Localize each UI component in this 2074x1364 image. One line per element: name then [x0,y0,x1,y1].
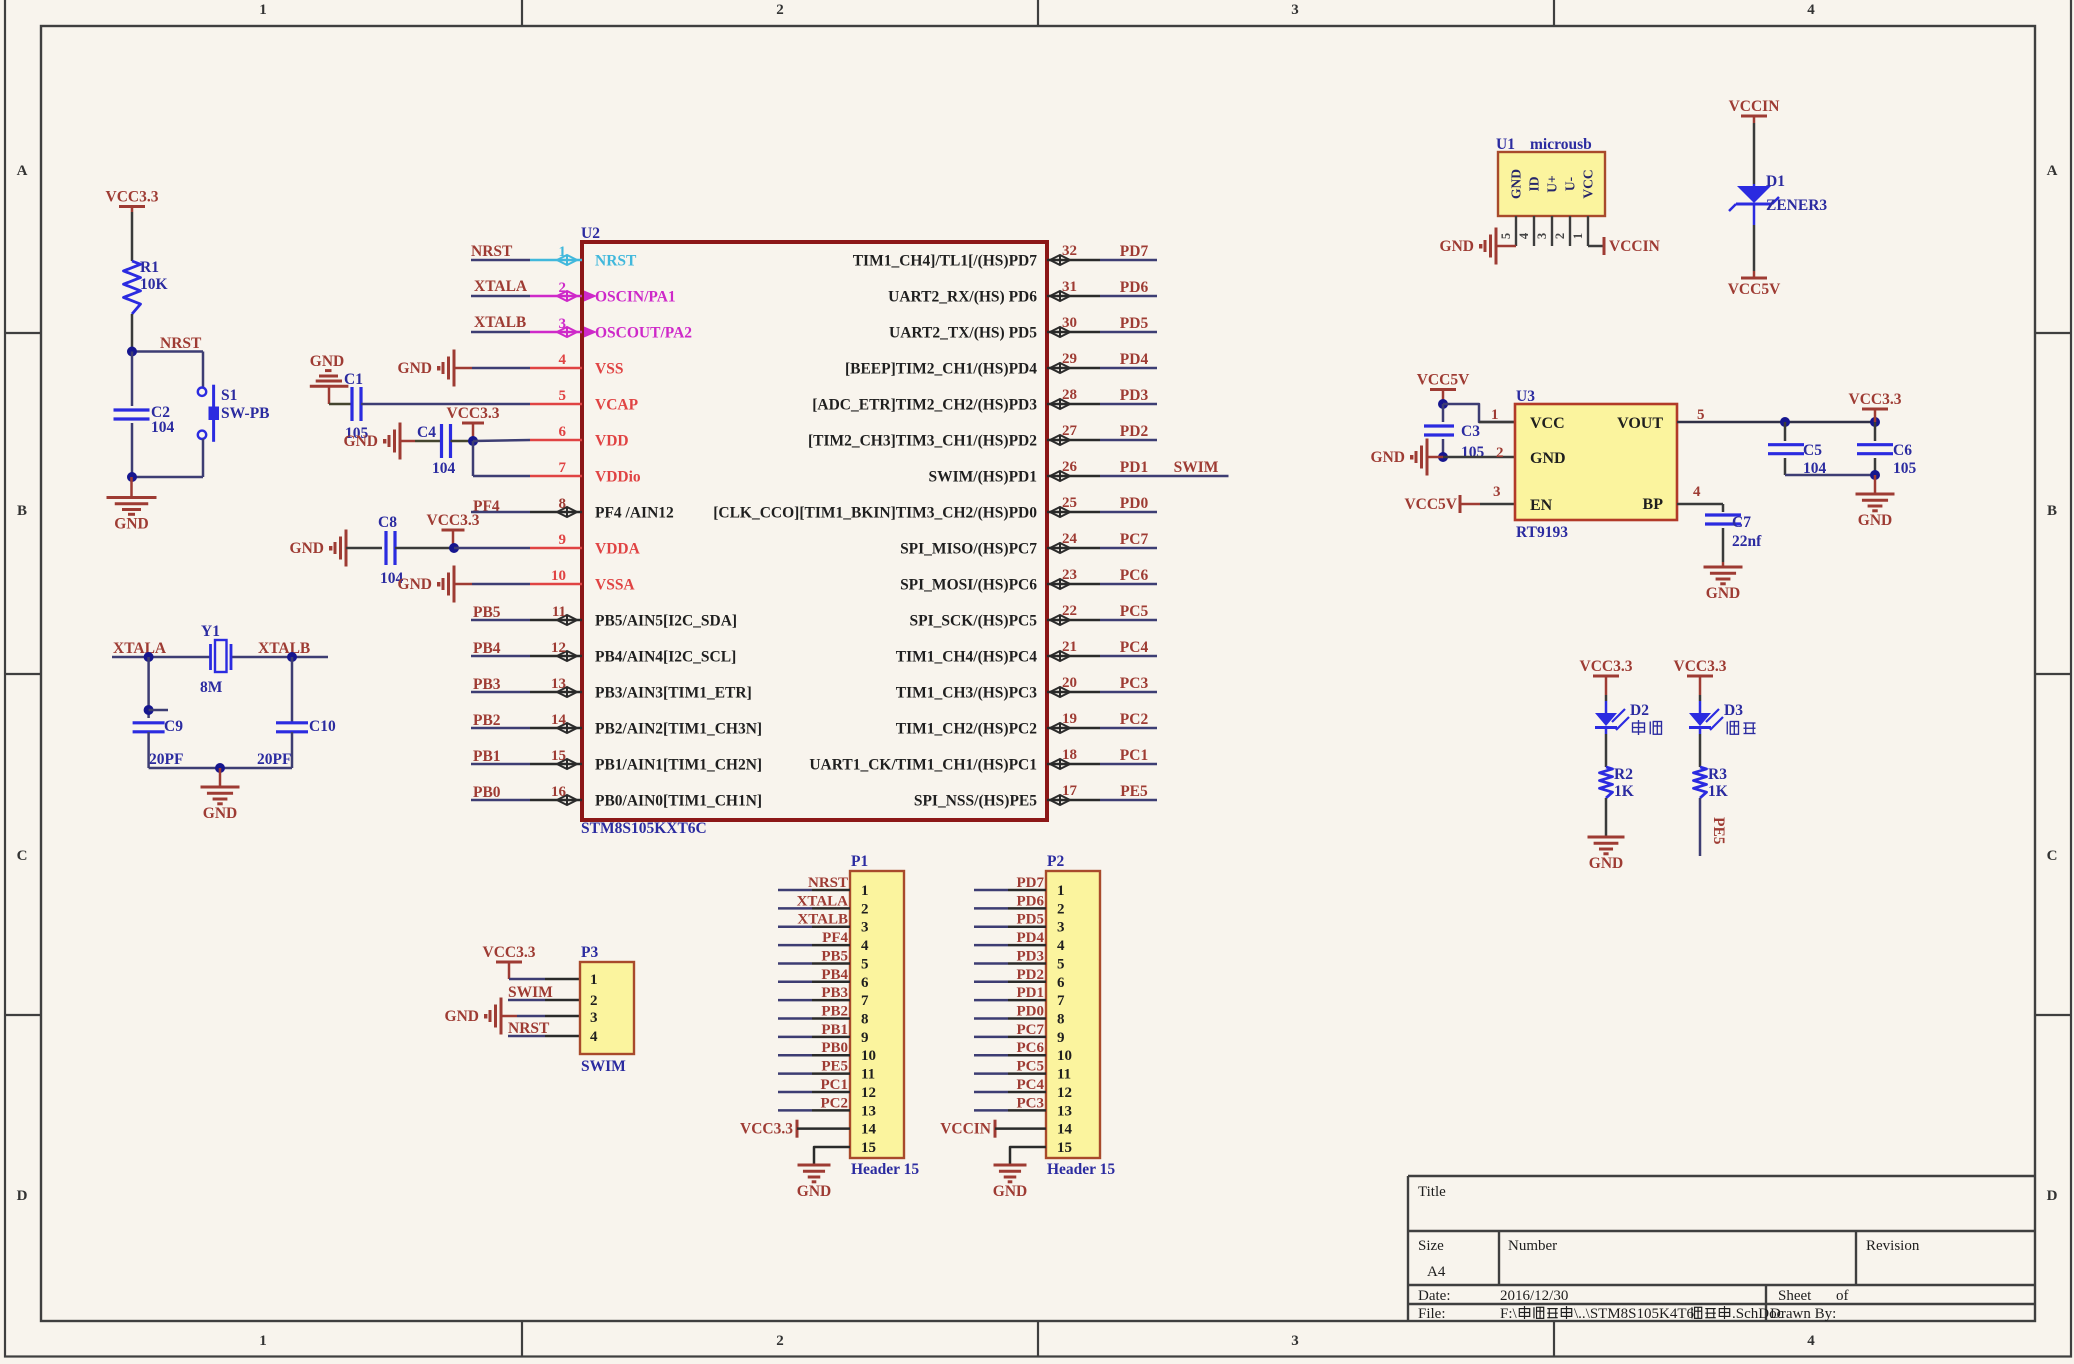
wire C1 left lead [329,403,352,406]
wire net PD5 to P2 pin3 [974,925,1008,928]
svg-text:PC4: PC4 [1120,639,1149,656]
wire VCC3.3 to D3 [1699,695,1702,701]
svg-text:GND: GND [1858,512,1892,529]
wire net PB1 to P1 pin9 [778,1036,812,1039]
svg-text:PB2: PB2 [473,712,501,729]
svg-text:PC7: PC7 [1017,1022,1045,1038]
svg-text:GND: GND [344,433,378,450]
pin 31 UART2_RX/(HS) PD6 [1047,295,1100,298]
svg-text:PE5: PE5 [821,1059,848,1075]
svg-text:XTALA: XTALA [474,278,528,295]
svg-text:2: 2 [1553,233,1567,239]
wire net PC4 [1100,655,1157,658]
svg-text:7: 7 [559,460,567,476]
svg-text:14: 14 [1057,1122,1073,1138]
wire XTALA down to C9 [147,657,150,718]
svg-text:VCC3.3: VCC3.3 [447,405,500,422]
wire net NRST to P1 pin1 [778,889,812,892]
wire net PB0 to P1 pin10 [778,1054,812,1057]
svg-text:11: 11 [552,604,566,620]
svg-text:F:\: F:\ [1500,1306,1518,1322]
pin 5 VCAP [530,403,582,406]
wire Y1 to XTALB [231,656,328,659]
wire D1 to VCC5V [1753,225,1756,271]
svg-text:1K: 1K [1708,783,1728,800]
pin 8 PF4 /AIN12 [530,511,582,514]
svg-text:SPI_MISO/(HS)PC7: SPI_MISO/(HS)PC7 [900,541,1037,558]
wire net PD5 [1100,331,1157,334]
svg-text:VCC3.3: VCC3.3 [483,944,536,961]
wire net PD7 [1100,259,1157,262]
wire PB0 to pin16 [471,799,530,802]
svg-text:GND: GND [1530,450,1566,467]
svg-text:OSCOUT/PA2: OSCOUT/PA2 [595,325,692,342]
svg-text:PB2/AIN2[TIM1_CH3N]: PB2/AIN2[TIM1_CH3N] [595,721,762,738]
wire net PD0 [1100,511,1157,514]
svg-text:ZENER3: ZENER3 [1766,197,1827,214]
svg-text:Revision: Revision [1866,1238,1920,1254]
svg-text:1: 1 [590,972,598,988]
svg-text:PC7: PC7 [1120,531,1149,548]
svg-text:11: 11 [861,1067,875,1083]
svg-text:C7: C7 [1732,514,1751,531]
wire U1 pin1 to VCCIN [1588,245,1604,248]
wire net PC3 to P2 pin13 [974,1109,1008,1112]
svg-text:NRST: NRST [471,243,513,260]
svg-text:TIM1_CH3/(HS)PC3: TIM1_CH3/(HS)PC3 [896,685,1037,702]
wire GND to C8 [346,547,382,550]
svg-text:D2: D2 [1630,702,1649,719]
svg-text:RT9193: RT9193 [1516,524,1568,541]
resistor R3 1K [1694,767,1707,798]
pin 19 TIM1_CH2/(HS)PC2 [1047,727,1100,730]
svg-text:C9: C9 [164,718,183,735]
pin 7 VDDio [530,475,582,478]
svg-text:SWIM/(HS)PD1: SWIM/(HS)PD1 [929,469,1038,486]
wire VCC3.3 to P3 pin1 [509,978,545,981]
svg-text:105: 105 [1461,444,1485,461]
svg-text:P3: P3 [581,944,598,961]
svg-text:4: 4 [1517,232,1531,239]
svg-text:9: 9 [559,532,567,548]
ground GND at P1 [813,1164,816,1167]
svg-text:SWIM: SWIM [508,984,553,1001]
svg-text:3: 3 [1291,2,1299,18]
wire U3 BP to C7 [1677,503,1723,506]
svg-text:26: 26 [1062,459,1078,475]
svg-text:microusb: microusb [1530,136,1592,153]
svg-text:Title: Title [1418,1184,1446,1200]
svg-text:104: 104 [432,460,456,477]
svg-text:VCCIN: VCCIN [1609,238,1660,255]
svg-text:GND: GND [445,1008,479,1025]
svg-text:3: 3 [861,920,869,936]
svg-text:30: 30 [1062,315,1077,331]
svg-text:8: 8 [1057,1012,1065,1028]
svg-text:SWIM: SWIM [1174,459,1219,476]
svg-text:105: 105 [1893,460,1917,477]
svg-text:7: 7 [861,993,869,1009]
pin 15 PB1/AIN1[TIM1_CH2N] [530,763,582,766]
svg-text:PB4: PB4 [821,967,848,983]
svg-text:6: 6 [1057,975,1065,991]
switch S1 SW-PB [198,388,206,396]
svg-text:3: 3 [1535,233,1549,239]
ground GND (reset circuit) [130,477,133,498]
svg-text:PC6: PC6 [1017,1040,1045,1056]
pin 13 PB3/AIN3[TIM1_ETR] [530,691,582,694]
svg-text:20PF: 20PF [149,751,183,768]
wire net PD4 [1100,367,1157,370]
svg-text:2: 2 [1496,445,1504,461]
svg-text:4: 4 [1807,2,1815,18]
capacitor C9 20PF [133,721,165,724]
wire net PC7 [1100,547,1157,550]
svg-text:2: 2 [559,280,567,296]
ground GND at R2 [1605,836,1608,837]
svg-text:PC2: PC2 [1120,711,1149,728]
svg-text:PC5: PC5 [1120,603,1149,620]
svg-text:1: 1 [1491,407,1499,423]
svg-text:PB0: PB0 [473,784,501,801]
wire PB3 to pin13 [471,691,530,694]
svg-text:PD1: PD1 [1017,985,1045,1001]
svg-text:D: D [17,1188,28,1204]
svg-text:4: 4 [1057,938,1065,954]
svg-text:C: C [2047,848,2058,864]
svg-text:NRST: NRST [808,875,848,891]
wire VCC5V to U3 pin1 [1443,404,1515,422]
svg-text:1: 1 [259,2,267,18]
svg-text:GND: GND [310,353,344,370]
svg-text:Sheet: Sheet [1778,1288,1812,1304]
wire net PB5 to P1 pin5 [778,962,812,965]
wire VDD node down to pin7 VDDio [472,441,475,476]
svg-text:PB5: PB5 [821,948,848,964]
wire VCCIN to D1 [1753,123,1756,184]
pin 25 [CLK_CCO][TIM1_BKIN]TIM3_CH2/(HS)PD0 [1047,511,1100,514]
svg-text:PD4: PD4 [1017,930,1045,946]
wire net PD6 [1100,295,1157,298]
wire GND to C4 [415,440,442,443]
wire net PE5 to P1 pin11 [778,1072,812,1075]
svg-text:5: 5 [1057,956,1065,972]
wire net PC1 to P1 pin12 [778,1091,812,1094]
LED D2 chinese label [1633,723,1645,732]
pin 4 VSS [530,367,582,370]
svg-text:2: 2 [590,993,598,1009]
svg-text:GND: GND [1509,169,1524,199]
svg-text:PD1: PD1 [1120,459,1148,476]
svg-text:U1: U1 [1496,136,1515,153]
pin 6 VDD [530,439,582,442]
svg-text:15: 15 [861,1140,876,1156]
svg-text:C4: C4 [417,424,436,441]
ground GND at C7 [1722,562,1725,567]
wire net XTALB to P1 pin3 [778,925,812,928]
svg-text:C3: C3 [1461,423,1480,440]
svg-text:NRST: NRST [508,1020,550,1037]
svg-text:GND: GND [203,805,237,822]
capacitor C7 22nf [1705,513,1741,516]
svg-text:17: 17 [1062,783,1078,799]
pin 11 PB5/AIN5[I2C_SDA] [530,619,582,622]
title block [1408,1175,2035,1177]
svg-text:PD5: PD5 [1017,912,1045,928]
svg-text:Header 15: Header 15 [1047,1161,1115,1178]
wire net PD0 to P2 pin8 [974,1017,1008,1020]
svg-text:10: 10 [551,568,566,584]
svg-text:\..\STM8S105K4T6: \..\STM8S105K4T6 [1574,1306,1695,1322]
capacitor C6 105 [1874,422,1877,441]
svg-text:5: 5 [1697,407,1705,423]
svg-text:3: 3 [1291,1333,1299,1349]
svg-text:PC5: PC5 [1017,1059,1045,1075]
svg-text:GND: GND [797,1183,831,1200]
svg-text:XTALB: XTALB [258,640,310,657]
svg-text:PE5: PE5 [1120,783,1148,800]
svg-text:EN: EN [1530,497,1553,514]
svg-text:R2: R2 [1614,766,1633,783]
wire net PD1 to P2 pin7 [974,999,1008,1002]
svg-text:GND: GND [1589,855,1623,872]
svg-text:File:: File: [1418,1306,1446,1322]
wire S1 to GND rail [202,439,205,477]
svg-text:D: D [2047,1188,2058,1204]
svg-text:2: 2 [861,901,869,917]
wire GND to P3 pin3 [517,1015,545,1018]
svg-text:R3: R3 [1708,766,1727,783]
svg-text:OSCIN/PA1: OSCIN/PA1 [595,289,676,306]
node junction at C5 [1780,417,1790,427]
wire net PC6 to P2 pin10 [974,1054,1008,1057]
svg-text:GND: GND [1440,238,1474,255]
svg-text:PC2: PC2 [821,1095,849,1111]
svg-text:PB0: PB0 [821,1040,848,1056]
wire XTALA to Y1 [112,656,210,659]
svg-text:3: 3 [590,1010,598,1026]
svg-text:C5: C5 [1803,442,1822,459]
svg-text:14: 14 [551,712,567,728]
svg-text:BP: BP [1643,496,1664,513]
svg-text:TIM1_CH4/(HS)PC4: TIM1_CH4/(HS)PC4 [896,649,1037,666]
wire net PF4 to P1 pin4 [778,944,812,947]
svg-text:1: 1 [1571,233,1585,239]
wire XTALB to pin3 [471,331,530,334]
svg-text:PD7: PD7 [1120,243,1149,260]
svg-text:SPI_MOSI/(HS)PC6: SPI_MOSI/(HS)PC6 [900,577,1037,594]
svg-text:19: 19 [1062,711,1077,727]
wire net PD6 to P2 pin2 [974,907,1008,910]
capacitor C10 20PF [276,721,308,724]
svg-text:of: of [1836,1288,1849,1304]
svg-text:PB4: PB4 [473,640,501,657]
svg-text:PD6: PD6 [1120,279,1149,296]
svg-text:3: 3 [1493,484,1501,500]
svg-text:15: 15 [1057,1140,1072,1156]
svg-text:A: A [17,163,28,179]
svg-text:VCC3.3: VCC3.3 [106,189,159,206]
svg-text:VCC5V: VCC5V [1728,281,1781,298]
svg-text:U3: U3 [1516,388,1535,405]
svg-text:2: 2 [776,1333,784,1349]
crystal Y1 8M [209,644,212,670]
svg-text:2016/12/30: 2016/12/30 [1500,1288,1568,1304]
diode D1 ZENER3 [1753,184,1756,186]
svg-text:VCCIN: VCCIN [940,1121,991,1138]
wire GND junction to U3 pin2 [1427,456,1443,459]
pin 30 UART2_TX/(HS) PD5 [1047,331,1100,334]
node junction at R1/C2/NRST [127,347,137,357]
svg-text:PC1: PC1 [1120,747,1148,764]
svg-text:1: 1 [861,883,869,899]
svg-text:PD5: PD5 [1120,315,1149,332]
svg-text:VCC: VCC [1581,169,1596,198]
resistor R2 1K [1600,767,1613,798]
svg-text:VCC5V: VCC5V [1404,496,1457,513]
svg-text:10: 10 [1057,1048,1072,1064]
svg-text:PB3: PB3 [473,676,501,693]
svg-text:13: 13 [861,1103,876,1119]
svg-text:NRST: NRST [160,335,202,352]
svg-text:6: 6 [559,424,567,440]
svg-text:D1: D1 [1766,173,1785,190]
svg-text:10K: 10K [140,276,168,293]
wire net PC2 to P1 pin13 [778,1109,812,1112]
svg-text:8M: 8M [200,679,223,696]
wire C8 to VDDA node [395,547,454,550]
svg-text:Size: Size [1418,1238,1444,1254]
wire net PD3 [1100,403,1157,406]
svg-text:2: 2 [1057,901,1065,917]
wire EN to U3 pin3 [1480,503,1515,506]
svg-text:UART2_TX/(HS) PD5: UART2_TX/(HS) PD5 [889,325,1037,342]
svg-text:PB5/AIN5[I2C_SDA]: PB5/AIN5[I2C_SDA] [595,613,737,630]
svg-text:PC3: PC3 [1120,675,1149,692]
svg-text:13: 13 [551,676,566,692]
svg-text:VCC3.3: VCC3.3 [1674,658,1727,675]
svg-text:15: 15 [551,748,566,764]
svg-text:C8: C8 [378,514,397,531]
svg-text:18: 18 [1062,747,1077,763]
svg-text:PB3/AIN3[TIM1_ETR]: PB3/AIN3[TIM1_ETR] [595,685,752,702]
svg-text:PB2: PB2 [821,1004,848,1020]
wire D3 to R3 [1699,734,1702,767]
node junction C6 ground [1870,470,1880,480]
wire net PB4 to P1 pin6 [778,981,812,984]
svg-text:STM8S105KXT6C: STM8S105KXT6C [581,820,707,837]
svg-text:20PF: 20PF [257,751,291,768]
svg-text:4: 4 [1807,1333,1815,1349]
svg-text:A4: A4 [1427,1264,1446,1280]
pin 20 TIM1_CH3/(HS)PC3 [1047,691,1100,694]
wire to pin9 VDDA [454,547,530,550]
svg-text:VCCIN: VCCIN [1729,98,1780,115]
wire P2 pin15 to GND [1010,1147,1046,1165]
svg-text:XTALB: XTALB [797,912,848,928]
pin 9 VDDA [530,547,582,550]
svg-text:GND: GND [398,360,432,377]
wire PB5 to pin11 [471,619,530,622]
svg-text:PD3: PD3 [1120,387,1149,404]
svg-text:U-: U- [1563,177,1578,191]
wire PB2 to pin14 [471,727,530,730]
capacitor C4 104 [440,424,443,458]
svg-text:VDD: VDD [595,433,629,450]
pin 2 OSCIN/PA1 [530,295,582,298]
svg-text:5: 5 [1499,233,1513,239]
node junction at C2/S1 bottom [127,472,137,482]
svg-text:29: 29 [1062,351,1077,367]
svg-text:PF4 /AIN12: PF4 /AIN12 [595,505,674,522]
pin 26 SWIM/(HS)PD1 [1047,475,1100,478]
node junction XTALA branch [144,652,154,662]
svg-text:104: 104 [151,419,175,436]
svg-text:12: 12 [1057,1085,1072,1101]
svg-text:25: 25 [1062,495,1077,511]
svg-text:24: 24 [1062,531,1078,547]
svg-text:Header 15: Header 15 [851,1161,919,1178]
svg-text:Drawn By:: Drawn By: [1770,1306,1836,1322]
power VCC5V below D1 [1741,277,1767,280]
svg-text:23: 23 [1062,567,1077,583]
svg-text:PD2: PD2 [1017,967,1045,983]
svg-text:U+: U+ [1545,175,1560,192]
wire U3 VOUT to VCC3.3 [1677,421,1875,424]
svg-text:12: 12 [861,1085,876,1101]
svg-text:PC1: PC1 [821,1077,849,1093]
svg-text:PD0: PD0 [1017,1004,1045,1020]
svg-text:Number: Number [1508,1238,1557,1254]
wire XTALB down to C10 [291,657,294,723]
pin 27 [TIM2_CH3]TIM3_CH1/(HS)PD2 [1047,439,1100,442]
svg-text:VCC3.3: VCC3.3 [740,1121,793,1138]
svg-text:1K: 1K [1614,783,1634,800]
svg-text:8: 8 [861,1012,869,1028]
svg-text:4: 4 [1693,484,1701,500]
wire R1 to NRST node [131,314,134,352]
svg-text:VCC5V: VCC5V [1417,372,1470,389]
svg-text:PB4/AIN4[I2C_SCL]: PB4/AIN4[I2C_SCL] [595,649,736,666]
wire crystal ground rail [149,767,292,770]
svg-text:3: 3 [1057,920,1065,936]
svg-text:R1: R1 [140,259,159,276]
wire D2 to R2 [1605,734,1608,767]
svg-text:TIM1_CH2/(HS)PC2: TIM1_CH2/(HS)PC2 [896,721,1037,738]
svg-text:SPI_NSS/(HS)PE5: SPI_NSS/(HS)PE5 [914,793,1037,810]
svg-text:NRST: NRST [595,253,637,270]
svg-text:12: 12 [551,640,566,656]
wire PB1 to pin15 [471,763,530,766]
wire net PD3 to P2 pin5 [974,962,1008,965]
svg-text:B: B [17,503,27,519]
wire net PC6 [1100,583,1157,586]
svg-text:PD2: PD2 [1120,423,1149,440]
wire net PC5 to P2 pin11 [974,1072,1008,1075]
svg-text:32: 32 [1062,243,1077,259]
wire C1 to pin5 VCAP [361,403,530,406]
svg-text:10: 10 [861,1048,876,1064]
wire net PC5 [1100,619,1157,622]
svg-text:PE5: PE5 [1710,817,1727,845]
MCU U2 STM8S105KXT6C body [582,242,1047,820]
wire net XTALA to P1 pin2 [778,907,812,910]
wire net PC2 [1100,727,1157,730]
svg-text:PF4: PF4 [822,930,848,946]
wire XTALA to pin2 [471,295,530,298]
wire VCC3.3 to R1 [131,212,134,261]
wire net PB3 to P1 pin7 [778,999,812,1002]
